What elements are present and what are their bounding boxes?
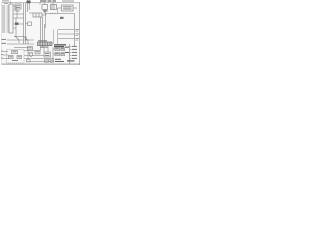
- frame border bottom: [2, 63, 81, 66]
- logo box text: [63, 6, 72, 9]
- component boxes top center: [42, 5, 57, 10]
- IC U1 left pin labels: [2, 6, 5, 33]
- resistor box on bus branch: [26, 22, 32, 26]
- net labels column: [72, 46, 77, 59]
- label above connector: [38, 40, 47, 41]
- bottom right text: [55, 59, 75, 62]
- component box small mid: [33, 13, 42, 17]
- wires around top center boxes: [40, 3, 53, 14]
- wires in cluster: [53, 47, 61, 59]
- header text above frame left: [2, 0, 9, 1]
- frame corner marks top left: [4, 2, 8, 5]
- bottom horizontal wires: [24, 46, 54, 62]
- long horizontal wire center: [46, 13, 75, 46]
- frame border left: [1, 3, 3, 65]
- subcircuit input stubs: [3, 52, 9, 59]
- text under left box: [43, 10, 48, 11]
- capacitor mark under wire: [60, 17, 64, 19]
- sub-circuit dashed box bottom left: [7, 50, 25, 64]
- transistor Q2: [24, 36, 28, 44]
- wires into net stubs: [54, 8, 75, 44]
- wire into connector box: [29, 13, 46, 15]
- small text mid-bottom: [28, 52, 33, 53]
- horizontal signal wires left: [7, 37, 34, 48]
- IC U1 left pins: [7, 6, 10, 32]
- mid-bottom components: [28, 47, 51, 58]
- logo box top right: [62, 5, 74, 11]
- labels mid-bottom: [28, 47, 49, 56]
- paper tint inside frame: [2, 3, 81, 65]
- component cluster bottom right: box row 1: [55, 48, 65, 56]
- wire vertical bus left pair: [24, 0, 30, 44]
- bottom middle boxes row: [45, 59, 54, 62]
- transistor Q1: [15, 18, 19, 43]
- dark text bar right-center: [54, 44, 66, 47]
- net label vertical wire right: [70, 44, 72, 64]
- oscillator box top: [15, 4, 21, 9]
- wire from U1 to bus: [16, 6, 24, 24]
- frame border right: [79, 3, 81, 66]
- marks inside subcircuit: [9, 51, 20, 61]
- vertical bus to connector: [41, 17, 45, 42]
- small box bottom mid-left: [27, 59, 31, 62]
- bottom frame ruler ticks: [8, 63, 48, 66]
- IC U1 left: [9, 4, 13, 33]
- frame border top: [2, 2, 81, 4]
- osc box sub text: [16, 11, 20, 12]
- label under connector: [40, 47, 48, 48]
- oscillator box label: [16, 5, 20, 8]
- box inside subcircuit top: [9, 51, 22, 59]
- IC U1 right pins: [13, 6, 16, 28]
- dark component top: [27, 1, 31, 4]
- wire through logo box: [58, 7, 78, 9]
- component cluster labels: [56, 47, 70, 55]
- net label stubs right: [76, 29, 80, 40]
- label near Q1: [15, 23, 19, 25]
- connector header dark box: [38, 42, 53, 46]
- sheet title text top center: [40, 0, 56, 1]
- labels for signal wires: [2, 39, 7, 44]
- wire stub across top frame: [9, 1, 11, 5]
- header text above frame right: [62, 1, 74, 2]
